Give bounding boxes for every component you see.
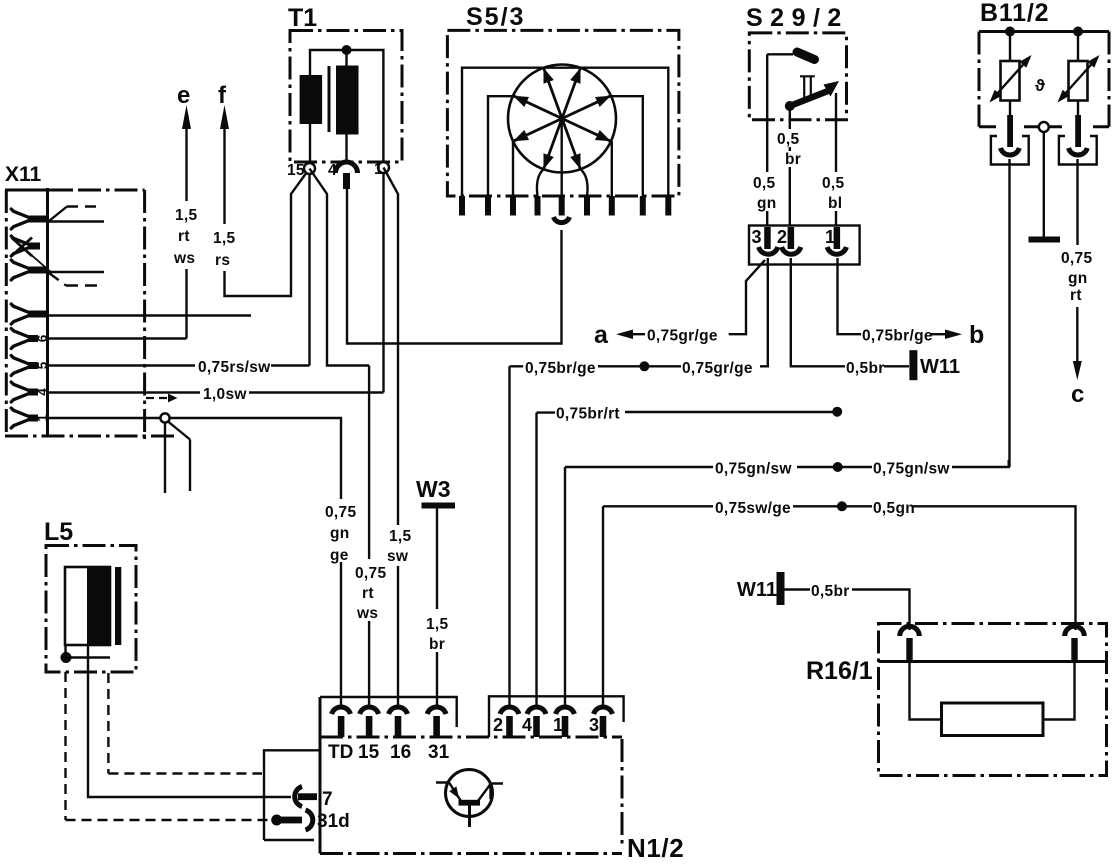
- terminal 1: [556, 707, 575, 714]
- terminal TD: [332, 707, 351, 714]
- S5/3 internal wires level 1: [462, 68, 668, 196]
- wire terminal15 fan left (to f) drawn above; straight down to rs/sw row: [308, 174, 310, 366]
- svg-text:0,75: 0,75: [325, 504, 356, 521]
- S29/2 movable arm: [790, 91, 828, 106]
- terminal 1 circle: [378, 162, 389, 173]
- connector pin 2: [788, 227, 795, 249]
- wire down from this row to N1/2 pin 2: [510, 366, 524, 705]
- svg-text:L5: L5: [44, 518, 73, 546]
- left sensor resistor: [1001, 61, 1020, 101]
- pin 31d pin and socket: [281, 817, 302, 824]
- svg-text:0,75gr/ge: 0,75gr/ge: [647, 328, 718, 345]
- L5 coil outline: [65, 567, 110, 645]
- svg-text:15: 15: [358, 742, 380, 763]
- B11/2 box: [979, 32, 1109, 127]
- junction circle: [160, 413, 169, 422]
- connector pin 3: [764, 227, 771, 249]
- wire down from gn/sw row to N1/2 pin 1: [564, 467, 566, 705]
- wire f: [225, 127, 310, 296]
- svg-text:1,5: 1,5: [213, 230, 236, 247]
- svg-text:sw: sw: [387, 548, 409, 565]
- svg-text:0,75: 0,75: [1061, 250, 1092, 267]
- S29/2 box: [749, 33, 846, 120]
- arrow e: [182, 105, 191, 129]
- L5 wire to pin 7: [88, 645, 291, 797]
- control unit N1/2 box: [319, 697, 322, 854]
- wire W11 to R16/1: [785, 588, 811, 590]
- wire pin1 down to node b row: [838, 258, 862, 334]
- svg-text:1: 1: [825, 227, 835, 247]
- svg-text:gn: gn: [330, 525, 350, 542]
- svg-text:T1: T1: [288, 4, 317, 32]
- centre ground circle: [1039, 122, 1049, 132]
- small dashed arrow inside X11: [146, 397, 170, 399]
- svg-text:1: 1: [374, 161, 383, 178]
- svg-text:31: 31: [428, 742, 450, 763]
- arrow a (left): [616, 330, 633, 340]
- R16/1 outer box: [879, 624, 1107, 776]
- X11 pin (top, unnumbered): [11, 209, 47, 229]
- S5/3 centre electrode wire: [561, 119, 563, 197]
- svg-text:ws: ws: [173, 250, 195, 267]
- svg-text:16: 16: [390, 742, 411, 763]
- L5 dashed screen wire to 31d: [66, 672, 271, 820]
- terminal 4 pin stem: [343, 173, 350, 189]
- svg-text:0,75rs/sw: 0,75rs/sw: [198, 359, 271, 376]
- svg-text:N1/2: N1/2: [627, 833, 684, 863]
- left connector housing: [991, 136, 1029, 165]
- S29/2 fixed contact pad: [797, 52, 815, 60]
- svg-text:X11: X11: [5, 163, 42, 186]
- svg-text:ϑ: ϑ: [1035, 76, 1045, 95]
- L5 box: [46, 546, 136, 673]
- wire pin4 1,0sw row: [48, 391, 384, 393]
- svg-text:1,5: 1,5: [389, 528, 412, 545]
- transistor symbol: [436, 770, 503, 828]
- arm pivot dot: [785, 101, 795, 111]
- svg-text:0,75gn/sw: 0,75gn/sw: [873, 461, 950, 478]
- left sensor arrow: [992, 58, 1030, 101]
- svg-text:0,75gr/ge: 0,75gr/ge: [682, 360, 753, 377]
- junction dot on T1 top wire: [342, 45, 352, 55]
- svg-text:0,75gn/sw: 0,75gn/sw: [715, 461, 792, 478]
- right sensor resistor: [1069, 61, 1088, 101]
- X11 pin 1: [11, 408, 50, 428]
- T1 primary winding: [300, 75, 323, 124]
- T1 secondary winding: [336, 66, 359, 135]
- wire pin2 down to 0,5br row: [791, 258, 845, 366]
- row 0,75br/rt: [537, 413, 556, 705]
- svg-text:4: 4: [522, 715, 532, 735]
- wire terminal1 diagonal right down to N1/2 16: [384, 168, 399, 707]
- S29/2 pi mark: [800, 76, 815, 98]
- svg-text:2: 2: [777, 227, 787, 247]
- svg-text:1,0sw: 1,0sw: [203, 386, 247, 403]
- svg-text:br: br: [429, 636, 445, 653]
- S29/2 connector block: [749, 226, 860, 265]
- long wire from 4th pin (dead end): [48, 314, 252, 316]
- T1 secondary leads: [345, 50, 347, 160]
- svg-text:0,5: 0,5: [822, 175, 845, 192]
- S5/3 curved wires: [537, 169, 588, 196]
- wire pin6 to e: [48, 337, 187, 339]
- N1/2 sub connector box: [264, 750, 320, 840]
- S5/3 box: [447, 30, 679, 196]
- right socket arc: [1069, 148, 1088, 155]
- wire from top pin: [48, 220, 105, 222]
- wire terminal1 straight down to 1,0sw row: [382, 173, 384, 393]
- R16/1 internal wiring: [910, 662, 1075, 720]
- wire from pin 3: [48, 271, 105, 273]
- svg-text:rt: rt: [178, 228, 190, 245]
- arm arrowhead: [824, 81, 840, 97]
- arrow b (right): [931, 333, 945, 335]
- rotor spokes with contact arrows: [513, 68, 611, 169]
- svg-text:rt: rt: [362, 585, 374, 602]
- svg-text:bl: bl: [828, 195, 842, 212]
- S5/3 internal wires level 2: [488, 96, 643, 196]
- wire pin br (middle): [789, 106, 791, 226]
- right sensor arrow: [1060, 58, 1098, 101]
- wire left sensor down to gn/sw row: [1008, 159, 1010, 467]
- dashed wire L5 box to N1/2 housing: [108, 673, 262, 774]
- X11 pin 4th (long stub wire): [11, 304, 47, 324]
- svg-text:gn: gn: [757, 195, 777, 212]
- svg-text:1,5: 1,5: [175, 207, 198, 224]
- terminal 15: [360, 707, 379, 714]
- S5/3 internal wires level 3: [513, 141, 612, 196]
- svg-text:W3: W3: [416, 476, 451, 502]
- R16/1 housing top: [879, 660, 1107, 663]
- svg-text:0,5br: 0,5br: [811, 583, 850, 600]
- wire pin5 rs/sw row: [48, 364, 310, 366]
- svg-text:W11: W11: [737, 579, 777, 601]
- terminal 3: [594, 707, 613, 714]
- branch diagonal on top pin: [49, 207, 67, 222]
- wire pin3 diagonal to node a: [729, 260, 765, 334]
- dashed stub (unconnected): [67, 205, 101, 208]
- connector X11 housing box: [5, 188, 176, 439]
- R16/1 left socket: [900, 626, 920, 636]
- wire right sensor down: [1076, 159, 1078, 245]
- row 0,75gn/sw: [565, 466, 713, 468]
- junction dot end of br/rt row: [832, 407, 842, 417]
- L5 coil filled half: [87, 567, 110, 645]
- svg-text:a: a: [594, 321, 609, 349]
- terminal 2: [500, 707, 519, 714]
- left sensor pin stem: [1007, 115, 1013, 147]
- wire down from sw/ge row to N1/2 pin 3: [602, 506, 604, 705]
- X11 pin 4: [11, 382, 50, 402]
- svg-text:0,75: 0,75: [355, 565, 386, 582]
- terminal 4: [527, 707, 546, 714]
- ground wire: [1043, 132, 1045, 237]
- arrow f: [220, 105, 229, 129]
- T1 primary lead to terminal 15: [309, 124, 311, 162]
- R16/1 right socket: [1065, 626, 1085, 636]
- svg-text:7: 7: [322, 789, 333, 810]
- N1/2 terminal bracket left group: [320, 697, 457, 727]
- T1 box: [290, 31, 402, 163]
- R16/1 resistor element: [942, 703, 1044, 736]
- wire pin bl (right): [835, 93, 837, 226]
- svg-text:0,75br/ge: 0,75br/ge: [525, 360, 596, 377]
- svg-text:ws: ws: [356, 605, 378, 622]
- svg-text:B11/2: B11/2: [980, 0, 1049, 27]
- svg-text:0,75sw/ge: 0,75sw/ge: [715, 500, 791, 517]
- svg-text:rt: rt: [1070, 287, 1082, 304]
- centre terminal socket fork: [554, 217, 570, 223]
- svg-text:f: f: [218, 82, 227, 109]
- svg-text:b: b: [969, 321, 984, 349]
- svg-text:e: e: [177, 82, 190, 109]
- wire pin3 straight down to gr/ge row: [760, 258, 768, 366]
- ground bar: [1029, 237, 1061, 243]
- right connector housing: [1059, 136, 1097, 165]
- svg-text:gn: gn: [1068, 270, 1088, 287]
- svg-text:2: 2: [493, 715, 503, 735]
- X11 pin 3: [11, 260, 47, 280]
- N1/2 terminal bracket right group: [489, 696, 624, 737]
- svg-text:3: 3: [589, 715, 599, 735]
- svg-text:1: 1: [553, 715, 563, 735]
- wire TD with labels 0,75 gn ge: [170, 418, 342, 706]
- row 0,75sw/ge / 0,5gn: [603, 505, 713, 507]
- arrow to c: [1076, 307, 1078, 362]
- X11 pin 2 (crossed out): [11, 236, 40, 256]
- svg-text:0,5gn: 0,5gn: [873, 500, 915, 517]
- S5/3 terminal stubs: [459, 196, 671, 216]
- svg-text:15: 15: [287, 162, 305, 179]
- wire pin gn (left): [766, 54, 768, 226]
- svg-text:TD: TD: [328, 742, 353, 763]
- svg-text:0,5br: 0,5br: [846, 360, 885, 377]
- wire terminal15 diagonal right then down to N1/2 15: [310, 169, 370, 366]
- S29/2 fixed contact wire: [767, 53, 793, 55]
- thin diagonal from cross to pin 3: [29, 253, 52, 273]
- svg-text:0,5: 0,5: [753, 175, 776, 192]
- wire pin1 to junction circle: [48, 417, 161, 419]
- pin 7 socket: [295, 787, 302, 807]
- connector pin 1: [834, 227, 841, 249]
- svg-text:0,5: 0,5: [777, 131, 800, 148]
- terminal 4 socket arc: [336, 162, 358, 173]
- left socket arc: [1001, 148, 1020, 155]
- X11 pin 5: [11, 356, 50, 376]
- L5 internal wire and junction: [66, 645, 111, 658]
- label 0,75 rt ws (wire 15): [368, 366, 370, 707]
- svg-text:31d: 31d: [317, 811, 350, 832]
- terminal 31: [427, 707, 446, 714]
- svg-text:br: br: [785, 151, 801, 168]
- svg-text:S5/3: S5/3: [466, 3, 525, 31]
- svg-text:R16/1: R16/1: [806, 657, 873, 685]
- HT wire terminal4 to distributor: [347, 189, 562, 344]
- dashed branch below pin 3: [49, 273, 104, 286]
- svg-text:4: 4: [328, 162, 337, 179]
- svg-text:0,75br/ge: 0,75br/ge: [862, 328, 933, 345]
- svg-text:rs: rs: [215, 252, 230, 269]
- svg-text:c: c: [1071, 381, 1084, 408]
- S5/3 rotor circle: [508, 65, 616, 173]
- junction dots on B11/2 supply: [1005, 27, 1015, 37]
- wire e: [185, 127, 187, 339]
- terminal 15 circle: [304, 163, 315, 174]
- svg-text:ge: ge: [330, 547, 349, 564]
- T1 core line: [328, 66, 331, 132]
- wire W3 to N1/2 31: [436, 509, 438, 707]
- X11 pin 6: [11, 329, 50, 349]
- svg-text:W11: W11: [920, 356, 960, 378]
- pin 31d junction dot: [271, 815, 282, 826]
- T1 top wire: [310, 50, 383, 162]
- cross-out X on pin 2: [12, 238, 33, 257]
- terminal 16: [389, 707, 408, 714]
- svg-text:0,75br/rt: 0,75br/rt: [556, 406, 620, 423]
- right sensor pin stem: [1075, 115, 1081, 147]
- bonded point W11 (upper): [909, 350, 917, 380]
- svg-text:S29/2: S29/2: [746, 4, 849, 32]
- svg-text:3: 3: [752, 227, 762, 247]
- L5 core bar: [115, 567, 121, 645]
- svg-text:1,5: 1,5: [426, 616, 449, 633]
- stub wires below junction circle: [168, 422, 190, 492]
